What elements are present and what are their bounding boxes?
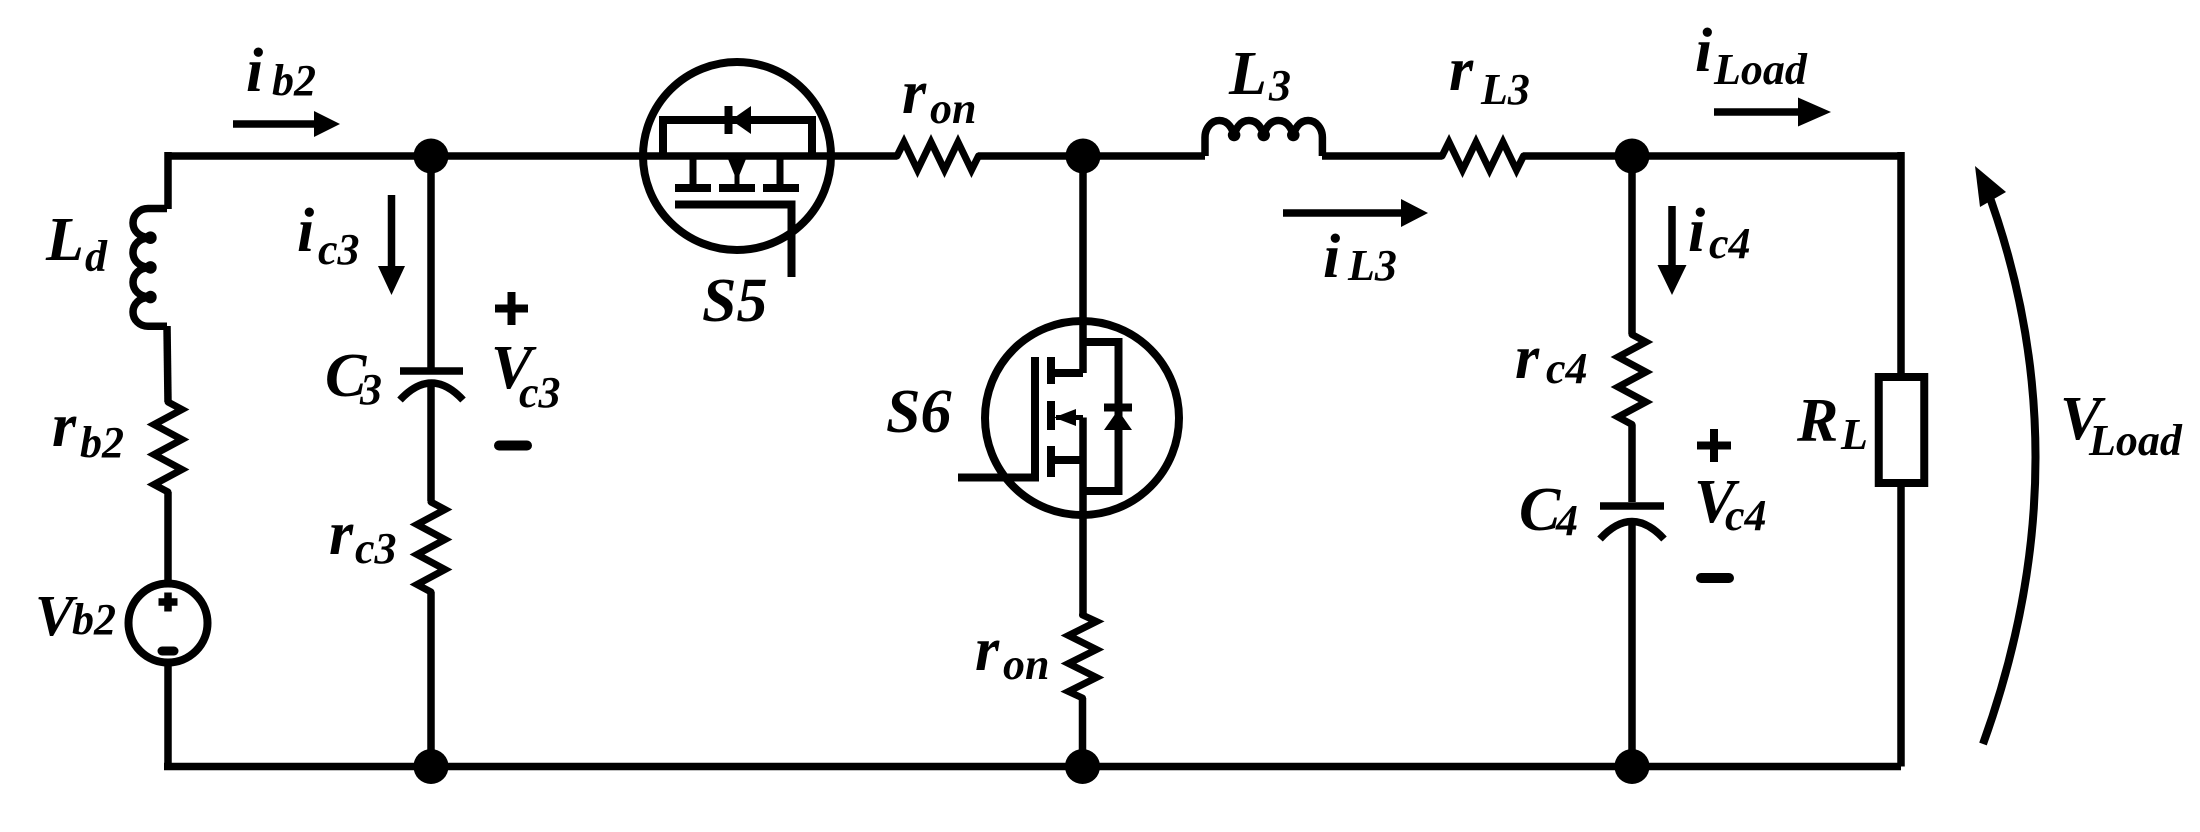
resistor rc3 [417,502,445,592]
svg-text:c4: c4 [1725,491,1767,540]
wire below ron bottom [1079,698,1087,767]
wire C4 branch upper [1628,156,1636,334]
wire top rail node2 segment [978,152,1205,160]
S6 source connector [1051,456,1083,464]
wire top rail to load corner [1523,152,1901,160]
svg-text:S6: S6 [886,378,951,446]
capacitor C3 top plate [400,367,463,375]
node B top S6 [1066,139,1101,174]
svg-text:r: r [975,616,1000,684]
label minus Vc3 [499,441,527,451]
transistor S6 circle [985,321,1179,515]
wire C4 branch lower [1628,523,1636,767]
wire C3 branch middle [427,384,435,501]
svg-text:b2: b2 [72,595,116,644]
svg-text:L3: L3 [1347,241,1397,290]
inductor L3 [1205,120,1322,156]
voltage source Vb2 circle [129,584,208,663]
label plus Vc3 [495,292,528,325]
node F bottom C4 [1615,749,1650,784]
S6 diode bar [1104,404,1132,412]
S6 diode triangle [1104,410,1132,430]
svg-text:R: R [1796,387,1838,455]
wire bottom rail [164,763,1901,771]
resistor rL3 [1442,142,1524,170]
svg-text:i: i [1695,17,1712,85]
svg-text:Load: Load [2088,416,2183,465]
svg-text:d: d [85,232,108,281]
svg-text:S5: S5 [702,267,767,335]
arrow iLoad [1714,98,1831,127]
S5 body arrow [728,159,746,181]
resistor ron bottom [1069,615,1097,698]
svg-text:b2: b2 [272,56,316,105]
S6 drain connector [1051,369,1083,377]
arrow iL3 [1283,199,1428,227]
arrow ib2 [233,111,340,137]
svg-text:r: r [329,500,354,568]
S5 drain lead [690,156,697,185]
capacitor C4 curved plate [1600,522,1664,540]
svg-text:r: r [52,392,77,460]
svg-text:r: r [902,59,927,127]
resistor rb2 [154,402,182,492]
wire left rail below Ld [167,326,168,402]
svg-text:c3: c3 [519,368,561,417]
svg-text:c4: c4 [1709,219,1751,268]
S5 channel dash 1 [675,184,711,192]
Vb2 plus sign [159,593,178,612]
S5 source lead [777,156,784,185]
svg-text:L3: L3 [1480,65,1530,114]
svg-text:L: L [45,206,84,274]
S5 channel dash 3 [763,184,799,192]
svg-text:i: i [246,37,263,105]
S6 channel dash 2 [1047,401,1055,430]
op: MOSFET S6 [958,321,1179,515]
S6 body arrow [1054,409,1076,426]
S6 body arrow lead [1056,415,1083,420]
wire left rail below rb2 [164,492,172,767]
node E bottom S6 [1065,749,1100,784]
node A top C3 [414,139,449,174]
wire C3 branch upper [427,156,435,369]
svg-text:c3: c3 [318,225,360,274]
svg-text:on: on [1003,640,1049,689]
wire S6 source branch [1079,418,1087,616]
svg-text:b2: b2 [80,418,124,467]
svg-text:r: r [1515,324,1540,392]
resistor rc4 [1618,335,1646,425]
arrow VLoad arc [1975,166,2036,744]
inductor Ld [133,209,167,327]
S6 channel dash 3 [1047,446,1055,477]
svg-text:i: i [297,197,314,265]
svg-text:L: L [1840,410,1868,459]
op: MOSFET S5 [643,62,831,277]
S6 channel dash 1 [1047,357,1055,384]
wire left rail upper [164,152,172,209]
S5 diode triangle [731,106,751,134]
label minus Vc4 [1701,573,1729,583]
wire right rail [1897,152,1905,767]
svg-text:4: 4 [1555,496,1578,545]
S5 channel dash 2 [719,184,755,192]
svg-text:r: r [1449,36,1474,104]
node C top C4 [1615,139,1650,174]
svg-text:i: i [1688,197,1705,265]
wire top rail between L3 and rL3 [1322,152,1442,160]
wire top rail left segment [168,152,897,160]
label plus Vc4 [1697,429,1731,462]
wire C3 branch lower [427,592,435,767]
wire C4 branch middle [1628,425,1636,503]
svg-text:on: on [930,84,976,133]
capacitor C4 top plate [1600,502,1664,510]
S6 body diode branch [1083,342,1119,491]
arrow ic3 [378,195,405,295]
transistor S5 circle [643,62,831,250]
svg-text:c4: c4 [1546,344,1588,393]
resistor RL rectangle [1879,377,1925,483]
capacitor C3 curved plate [400,383,463,400]
svg-text:3: 3 [359,365,382,414]
svg-text:c3: c3 [355,524,397,573]
wire S6 drain branch [1079,156,1087,373]
svg-text:C: C [1519,476,1561,544]
svg-text:3: 3 [1268,61,1291,110]
svg-text:L: L [1228,40,1267,108]
S5 body lead [735,156,740,185]
S5 diode bar [725,106,733,134]
S6 gate [958,357,1035,478]
S5 gate [675,205,792,278]
svg-text:i: i [1323,223,1340,291]
svg-text:Load: Load [1713,45,1808,94]
Vb2 minus sign [162,647,174,656]
S5 body diode loop [663,120,812,156]
resistor ron top [897,142,979,170]
arrow ic4 [1658,206,1687,295]
node D bottom C3 [414,749,449,784]
